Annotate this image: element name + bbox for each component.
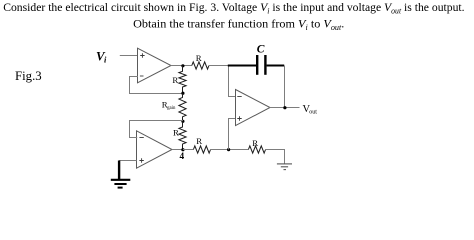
op-amp U3 (bottom left) bbox=[137, 131, 173, 168]
label R (bottom right horizontal resistor) bbox=[252, 138, 258, 148]
thick wire from capacitor right plate bbox=[267, 65, 285, 67]
wire U1 - input feedback loop bbox=[130, 77, 183, 94]
node junction dot (Rgain / R) bbox=[181, 120, 184, 123]
ground (bottom left, heavy) bbox=[111, 161, 131, 188]
wire Vi to op-amp U1 + input bbox=[120, 55, 138, 57]
svg-text:R: R bbox=[252, 138, 258, 148]
node Vout junction dot bbox=[283, 106, 286, 109]
op-amp U2 (right) bbox=[236, 90, 271, 126]
wire node 4 to resistor bbox=[183, 149, 194, 151]
input label Vi bbox=[96, 49, 107, 64]
figure label Fig.3 bbox=[15, 69, 42, 83]
label R (bottom left horizontal resistor) bbox=[196, 136, 202, 146]
wire capacitor to op-amp U2 output node bbox=[284, 66, 286, 108]
problem statement line 2 bbox=[133, 17, 344, 32]
svg-text:4: 4 bbox=[180, 152, 185, 162]
wire U3 output to node 4 bbox=[172, 149, 183, 151]
svg-text:R: R bbox=[173, 128, 179, 138]
wire U1 output to node A bbox=[171, 65, 192, 67]
thick wire to capacitor left plate bbox=[228, 65, 256, 67]
resistor R (lower vertical, above node 4) bbox=[179, 121, 186, 149]
label Rgain bbox=[162, 99, 176, 111]
resistor R (bottom left horizontal) bbox=[193, 146, 210, 153]
ground (bottom right) bbox=[277, 164, 292, 170]
wire node C up to op-amp U2 + input bbox=[229, 119, 236, 150]
label Vout bbox=[303, 104, 318, 116]
resistor Rgain (vertical) bbox=[179, 94, 186, 122]
wire U3 - input feedback loop bbox=[130, 121, 183, 138]
svg-text:out: out bbox=[309, 109, 317, 115]
wire U3 + input to ground bbox=[119, 160, 137, 162]
node 4 junction dot bbox=[181, 148, 184, 151]
label node 4 bbox=[180, 152, 185, 162]
node A junction dot (U1 output) bbox=[181, 64, 184, 67]
problem statement line 1 bbox=[3, 0, 464, 15]
wire R to capacitor node bbox=[209, 65, 228, 67]
svg-text:R: R bbox=[196, 136, 202, 146]
op-amp U1 (top left) bbox=[138, 48, 172, 83]
wire resistor to node C bbox=[211, 149, 249, 151]
svg-text:C: C bbox=[257, 43, 265, 55]
label R (top horizontal resistor) bbox=[196, 53, 202, 63]
node C junction dot bbox=[227, 148, 230, 151]
svg-text:R: R bbox=[172, 75, 178, 85]
label R (middle vertical resistor) bbox=[172, 75, 178, 85]
svg-text:R: R bbox=[196, 53, 202, 63]
wire U2 output to Vout bbox=[270, 107, 300, 109]
resistor R (middle vertical, below node A) bbox=[179, 66, 186, 94]
svg-text:Obtain the transfer function f: Obtain the transfer function from Vi to … bbox=[133, 17, 344, 32]
wire node B down to op-amp U2 - input bbox=[229, 66, 236, 97]
wire resistor to right ground bbox=[266, 150, 285, 164]
resistor R (top horizontal) bbox=[192, 62, 209, 69]
label C bbox=[257, 43, 265, 55]
svg-text:Fig.3: Fig.3 bbox=[15, 69, 42, 83]
label R (lower vertical resistor) bbox=[173, 128, 179, 138]
resistor R (bottom right horizontal) bbox=[248, 146, 265, 153]
capacitor C bbox=[257, 55, 265, 75]
node junction dot (R / Rgain) bbox=[181, 92, 184, 95]
svg-text:gain: gain bbox=[167, 106, 176, 111]
